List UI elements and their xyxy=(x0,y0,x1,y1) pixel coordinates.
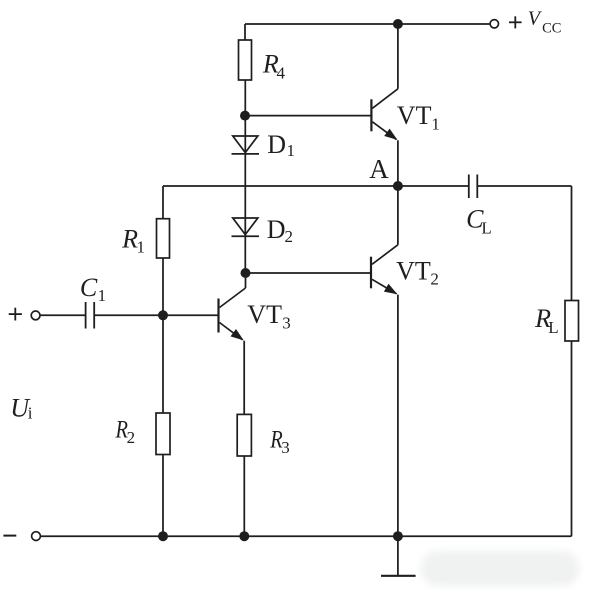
wire mid rail to CL xyxy=(398,185,469,187)
wire VT1 base xyxy=(245,115,371,117)
resistor R2 xyxy=(156,413,170,455)
wire VT2 emitter vertical xyxy=(397,295,399,537)
svg-text:CC: CC xyxy=(542,21,561,37)
resistor RL xyxy=(565,301,579,342)
terminal input plus xyxy=(31,311,40,320)
svg-text:3: 3 xyxy=(281,438,290,457)
wire right column top xyxy=(571,186,573,301)
terminal +Vcc xyxy=(490,20,498,28)
wire mid rail left xyxy=(163,185,398,187)
wire bottom rail xyxy=(40,535,571,537)
resistor R1 xyxy=(157,219,170,258)
svg-text:VT: VT xyxy=(396,257,431,286)
svg-text:A: A xyxy=(369,154,389,184)
wire VT1 collector vertical xyxy=(397,24,399,89)
svg-text:V: V xyxy=(528,8,543,30)
node junction D2/VT3 collector xyxy=(241,268,251,278)
node junction below R4 xyxy=(240,111,250,121)
wire ground stem xyxy=(397,536,399,576)
transistor VT1 xyxy=(371,89,398,140)
svg-text:4: 4 xyxy=(277,64,286,83)
svg-text:3: 3 xyxy=(282,314,291,333)
svg-text:1: 1 xyxy=(431,115,440,134)
capacitor C1 xyxy=(86,302,95,329)
wire diode column vertical xyxy=(244,80,246,273)
svg-text:2: 2 xyxy=(127,428,136,447)
transistor VT3 xyxy=(219,288,246,340)
label Ui xyxy=(10,393,33,422)
wire VT2 collector vertical xyxy=(397,186,399,245)
svg-text:1: 1 xyxy=(287,141,296,160)
node top rail / VT1 collector xyxy=(393,19,403,29)
node bottom rail left xyxy=(158,531,168,541)
label RL xyxy=(534,304,559,337)
label D2 xyxy=(267,215,293,246)
transistor VT2 xyxy=(371,245,398,294)
wire C1 to VT3 base xyxy=(94,314,218,316)
resistor R4 xyxy=(239,40,252,80)
wire VT1 emitter vertical to node A xyxy=(397,140,399,186)
plus sign Vcc xyxy=(509,16,522,28)
label R4 xyxy=(262,50,286,83)
svg-text:1: 1 xyxy=(137,237,146,256)
label CL xyxy=(466,205,492,238)
svg-text:VT: VT xyxy=(247,300,282,329)
label R3 xyxy=(269,426,289,457)
svg-text:D: D xyxy=(267,130,286,159)
wire VT3 collector vertical xyxy=(245,273,247,288)
plus sign input xyxy=(9,308,22,321)
node bottom rail right xyxy=(393,531,403,541)
label Vcc xyxy=(528,8,562,37)
terminal input minus xyxy=(32,532,41,541)
wire right column RL bottom xyxy=(571,341,573,536)
svg-text:D: D xyxy=(267,215,286,244)
wire left column R1 top xyxy=(162,186,164,219)
node bottom rail middle xyxy=(239,531,249,541)
label VT1 xyxy=(397,101,440,134)
svg-text:VT: VT xyxy=(397,101,432,130)
node input junction xyxy=(158,310,168,320)
wire top rail xyxy=(245,23,490,25)
diode D2 xyxy=(232,218,260,236)
svg-text:L: L xyxy=(481,218,491,237)
label R2 xyxy=(115,416,135,447)
label VT2 xyxy=(396,257,439,289)
minus sign input xyxy=(3,535,16,537)
svg-text:C: C xyxy=(80,273,98,302)
label VT3 xyxy=(247,300,290,333)
label D1 xyxy=(267,130,295,160)
node A junction xyxy=(393,181,403,191)
svg-text:L: L xyxy=(548,318,558,337)
wire input terminal to C1 xyxy=(40,314,86,316)
svg-text:2: 2 xyxy=(285,227,294,246)
wire left column R2 bottom xyxy=(162,455,164,537)
ground xyxy=(381,575,416,577)
svg-text:1: 1 xyxy=(98,286,107,305)
wire R3 bottom xyxy=(243,456,245,536)
wire R4 branch top xyxy=(244,24,246,40)
resistor R3 xyxy=(237,414,251,456)
label C1 xyxy=(80,273,106,305)
wire VT2 base xyxy=(246,272,372,274)
svg-text:i: i xyxy=(28,404,33,423)
label R1 xyxy=(121,225,145,257)
wire VT3 emitter vertical to R3 xyxy=(243,341,245,415)
wire left column R1 to input node xyxy=(162,258,164,413)
diode D1 xyxy=(232,136,260,154)
capacitor CL xyxy=(469,175,478,199)
svg-text:2: 2 xyxy=(430,269,439,288)
wire CL to right column xyxy=(477,185,571,187)
